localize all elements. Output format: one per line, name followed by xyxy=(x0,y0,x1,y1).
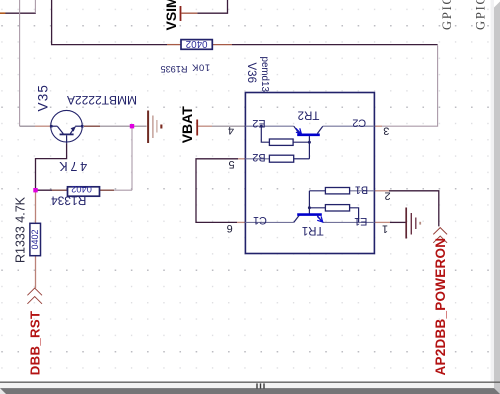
svg-text:C2: C2 xyxy=(352,117,366,129)
svg-text:V35: V35 xyxy=(36,84,51,112)
svg-text:R1333 4.7K: R1333 4.7K xyxy=(14,196,28,263)
svg-text:10K: 10K xyxy=(191,62,210,73)
svg-text:0402: 0402 xyxy=(30,229,40,249)
svg-text:V36: V36 xyxy=(245,63,257,83)
svg-text:R1935: R1935 xyxy=(160,64,187,74)
svg-text:4: 4 xyxy=(228,124,234,136)
svg-text:0402: 0402 xyxy=(71,184,92,194)
svg-text:3: 3 xyxy=(383,125,389,137)
svg-text:B1: B1 xyxy=(355,183,368,195)
svg-text:R1334: R1334 xyxy=(51,194,87,208)
svg-text:TR2: TR2 xyxy=(298,108,320,120)
svg-text:C1: C1 xyxy=(253,214,267,226)
svg-text:2: 2 xyxy=(385,189,391,201)
svg-text:B2: B2 xyxy=(252,151,265,163)
svg-text:VSIM: VSIM xyxy=(163,0,179,31)
svg-text:DBB_RST: DBB_RST xyxy=(28,311,43,376)
svg-text:GPIO: GPIO xyxy=(440,0,454,30)
svg-text:MMBT2222A: MMBT2222A xyxy=(67,93,137,107)
svg-text:5: 5 xyxy=(228,158,234,170)
svg-text:TR1: TR1 xyxy=(302,224,324,236)
svg-text:47K: 47K xyxy=(56,159,87,173)
svg-text:VBAT: VBAT xyxy=(179,106,195,144)
svg-text:1: 1 xyxy=(382,222,388,234)
svg-text:E1: E1 xyxy=(354,215,367,227)
svg-text:E2: E2 xyxy=(252,117,265,129)
svg-text:AP2DBB_POWERON: AP2DBB_POWERON xyxy=(433,238,448,376)
svg-text:6: 6 xyxy=(227,222,233,234)
svg-text:pemd13: pemd13 xyxy=(259,57,270,93)
svg-text:0402: 0402 xyxy=(186,38,208,49)
svg-text:GPIO: GPIO xyxy=(474,0,488,30)
